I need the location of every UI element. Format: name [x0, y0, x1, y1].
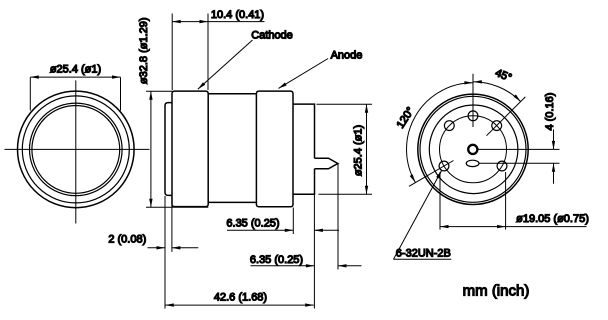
svg-text:4 (0.16): 4 (0.16)	[544, 93, 556, 131]
rear view inner face circle	[429, 105, 518, 194]
svg-text:ø25.4 (ø1): ø25.4 (ø1)	[50, 64, 101, 76]
cathode leader	[198, 40, 253, 89]
rear view outer circle	[418, 94, 528, 204]
oval key slot	[466, 160, 479, 166]
pin upper-right	[492, 121, 502, 131]
front view second circle	[22, 96, 129, 203]
svg-text:120°: 120°	[395, 105, 417, 131]
extension line from pin tip	[337, 164, 339, 270]
dim d19.05: right extension line	[505, 172, 507, 230]
dim d32.8: dimension line	[150, 91, 152, 207]
svg-text:ø19.05 (ø0.75): ø19.05 (ø0.75)	[516, 213, 589, 225]
dim d19.05: dimension line	[440, 226, 506, 228]
dim d25.4 front: right extension line	[120, 77, 122, 110]
svg-text:mm (inch): mm (inch)	[463, 283, 530, 300]
svg-text:10.4 (0.41): 10.4 (0.41)	[211, 9, 264, 21]
dim d25.4 rear: dimension line	[366, 104, 368, 194]
side view front plate	[165, 103, 172, 196]
side view first ring (d32.8)	[172, 91, 208, 207]
dim 6.35 second: right tail with arrow	[338, 265, 362, 267]
dim 4: lower dimension line with up arrow	[553, 163, 555, 184]
svg-text:ø32.8 (ø1.29): ø32.8 (ø1.29)	[138, 17, 150, 84]
dim 42.6: dimension line	[165, 304, 313, 306]
side view body between rings	[208, 94, 256, 203]
dim d25.4 front: dimension line	[30, 76, 120, 78]
dim 10.4: dimension line tail under text	[208, 21, 265, 23]
dim 2: right tail	[172, 247, 198, 249]
thread leader to lower-left pin	[394, 170, 442, 259]
front view aperture circle outer	[30, 103, 123, 196]
pin lower-right	[497, 161, 507, 171]
svg-text:2 (0.08): 2 (0.08)	[108, 233, 146, 245]
45 degree dimension arc	[473, 82, 520, 102]
dim 6.35 first: right tail with arrow	[314, 229, 339, 231]
svg-text:45°: 45°	[493, 67, 513, 84]
rear view pin bolt circle	[440, 116, 507, 183]
svg-text:6.35 (0.25): 6.35 (0.25)	[226, 217, 279, 229]
pin top	[468, 111, 478, 121]
dim d19.05: left extension line	[439, 172, 441, 230]
dim d32.8: bottom extension line	[146, 206, 208, 208]
dim 4: upper dimension line with down arrow	[553, 130, 555, 150]
210 degree ray through lower-left pin	[409, 161, 454, 187]
side view second ring	[256, 91, 293, 207]
anode leader	[279, 59, 329, 89]
front view vertical centerline	[75, 80, 77, 223]
rear view vertical centerline	[472, 74, 474, 127]
dim 2: dimension line with outside arrows	[148, 247, 166, 249]
dim d19.05: tail under text	[506, 226, 587, 228]
svg-text:6-32UN-2B: 6-32UN-2B	[396, 247, 451, 259]
dim d25.4 rear: top extension line	[317, 103, 373, 105]
svg-text:6.35 (0.25): 6.35 (0.25)	[250, 254, 303, 266]
svg-text:Anode: Anode	[331, 50, 363, 62]
side view rear pin	[315, 158, 338, 169]
front view outer circle	[18, 91, 135, 208]
45 degree ray through upper-right pin	[487, 97, 526, 136]
rear view chamfer circle	[420, 96, 526, 202]
dim 4: bottom extension line	[479, 162, 559, 164]
dim d32.8: top extension line	[146, 90, 173, 92]
dim 10.4: left extension line	[171, 14, 173, 91]
dim 10.4: dimension line	[172, 21, 208, 23]
extension line from plate front face	[164, 196, 166, 309]
svg-text:Cathode: Cathode	[251, 29, 293, 41]
thread label underline	[393, 258, 451, 260]
dim d25.4 rear: bottom extension line	[319, 193, 373, 195]
pin upper-left	[444, 121, 454, 131]
center pin (bold)	[468, 145, 477, 154]
pin lower-left	[439, 161, 449, 171]
extension line from second ring rear face	[292, 208, 294, 235]
dim 4: top extension line	[478, 148, 560, 150]
side view rear cylinder	[293, 104, 315, 194]
dim 6.35 second: left line with arrow	[251, 265, 315, 267]
front view horizontal centerline	[5, 148, 150, 150]
extension line from rear cylinder face	[313, 194, 315, 308]
front view aperture circle inner	[32, 105, 120, 193]
120 degree dimension arc	[407, 83, 473, 183]
extension line from plate rear face	[171, 196, 173, 252]
svg-text:42.6 (1.68): 42.6 (1.68)	[214, 292, 267, 304]
dim d25.4 front: left extension line	[29, 77, 31, 110]
dim 6.35 first: left line with arrow	[227, 229, 293, 231]
svg-text:ø25.4 (ø1): ø25.4 (ø1)	[353, 125, 365, 176]
dim 10.4: right extension line	[207, 14, 209, 91]
